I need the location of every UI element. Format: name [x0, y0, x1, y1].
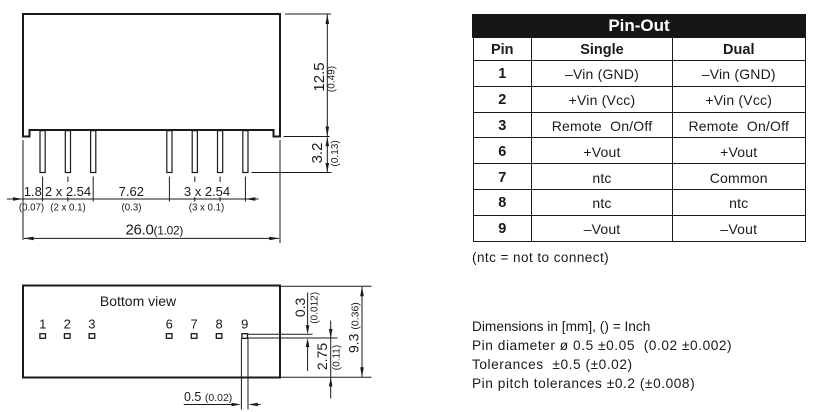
arrowhead down at 9.3 bottom [360, 367, 364, 377]
extension line: pin9 left edge down (0.5) [240, 339, 242, 410]
arrowhead down at pin9 lower line [329, 329, 333, 338]
extension tick: pin7 at dim line [194, 197, 196, 202]
bottom view: pin 2 square [64, 334, 70, 339]
extension line: pin3 center [92, 177, 94, 202]
svg-text:1.8: 1.8 [24, 184, 42, 199]
arrowhead up at 9.3 top [360, 286, 364, 296]
front view: pin 2 [65, 131, 70, 173]
extension line: body left edge [22, 140, 24, 240]
bottom view: pin 1 square [40, 334, 46, 339]
arrowhead left at 26.0 left end [24, 237, 34, 241]
dimension line 9.3 vertical [361, 287, 363, 377]
dimension 0.3: lower leader with up arrow [307, 342, 309, 372]
svg-text:3 x 2.54: 3 x 2.54 [184, 184, 230, 199]
arrowhead right at 26.0 right end [269, 237, 279, 241]
svg-text:2.75: 2.75 [314, 343, 330, 370]
svg-text:2 x 2.54: 2 x 2.54 [45, 184, 91, 199]
dimension line: pin pitch row [7, 198, 259, 200]
bottom view: pin 7 square [191, 334, 197, 339]
front view: package body outline [23, 14, 280, 137]
extension line: pin1 center [42, 177, 44, 202]
svg-text:1: 1 [39, 317, 46, 332]
svg-text:12.5: 12.5 [311, 62, 328, 91]
arrowhead left at 0.5 right ext [248, 403, 258, 407]
extension dash: pin2 center [67, 177, 69, 183]
bottom view: pin 6 square [166, 334, 172, 339]
dimensions text block [472, 317, 732, 394]
svg-text:3.2: 3.2 [309, 143, 326, 164]
extension dash: pin7 center [194, 177, 196, 183]
extension line: pin tips right [252, 172, 332, 174]
svg-text:(3 x 0.1): (3 x 0.1) [189, 203, 225, 214]
svg-text:7.62: 7.62 [119, 184, 144, 199]
arrowhead down at standoff line [326, 127, 330, 137]
front view: pin 7 [192, 131, 197, 173]
arrowhead right at body left ext [13, 197, 23, 201]
extension dash: pin8 center [219, 177, 221, 183]
dimension line 12.5 vertical [326, 15, 328, 137]
extension line: pin9 right edge down (0.5) [247, 339, 249, 410]
svg-text:9: 9 [241, 317, 248, 332]
dimension line: 26.0 overall [24, 237, 279, 239]
dimension 2.75: vertical line [330, 321, 332, 399]
extension line: pin9 top edge (0.3 upper) [248, 333, 313, 335]
svg-text:26.0(1.02): 26.0(1.02) [126, 222, 184, 239]
svg-text:9.3 (0.36): 9.3 (0.36) [346, 302, 362, 353]
note ntc [472, 250, 609, 265]
svg-text:(0.07): (0.07) [19, 203, 44, 214]
arrowhead up at body bottom line [329, 378, 333, 387]
extension line: body bottom right (9.3) [281, 376, 372, 378]
svg-text:(0.11): (0.11) [332, 345, 343, 370]
svg-text:(0.13): (0.13) [330, 140, 341, 166]
bottom view: package body rectangle [23, 286, 280, 378]
svg-text:(0.49): (0.49) [327, 66, 338, 92]
extension line: pin9 bottom edge (0.3 lower) [248, 337, 338, 339]
svg-text:(2 x 0.1): (2 x 0.1) [50, 203, 86, 214]
extension line: body top right (9.3) [281, 285, 372, 287]
arrowhead down at 3.2 bottom [326, 163, 330, 172]
extension line: body top right [285, 13, 331, 15]
arrowhead up at body top [326, 14, 330, 24]
extension line: body right edge [279, 140, 281, 243]
dimension 0.5: leader line under text [184, 404, 233, 406]
svg-text:0.3: 0.3 [292, 297, 308, 317]
extension tick: pin8 at dim line [219, 197, 221, 202]
extension line: pin6 center [168, 177, 170, 202]
svg-text:8: 8 [215, 317, 222, 332]
svg-text:Bottom view: Bottom view [100, 293, 177, 309]
svg-text:3: 3 [88, 317, 95, 332]
svg-text:(0.012): (0.012) [310, 292, 321, 324]
front view: pin 9 [243, 131, 248, 173]
arrowhead left at pin9 ext [245, 197, 255, 201]
arrowhead right at 0.5 left ext [232, 403, 242, 407]
front view: pin 1 [40, 131, 45, 173]
extension line: body bottom (standoff) right [284, 136, 330, 138]
svg-text:6: 6 [166, 317, 173, 332]
svg-text:(0.3): (0.3) [122, 203, 142, 214]
arrowhead up at 3.2 top [326, 137, 330, 146]
front view: pin 8 [218, 131, 223, 173]
front view: pin 3 [91, 131, 96, 173]
dimension 0.3: upper leader with down arrow [307, 293, 309, 331]
svg-text:0.5 (0.02): 0.5 (0.02) [184, 390, 232, 404]
front view: pin 6 [167, 131, 172, 173]
dimension 0.5: right shaft [256, 404, 261, 406]
extension tick: pin2 at dim line [67, 197, 69, 202]
dimension line 3.2 vertical [326, 137, 328, 172]
bottom view: pin 8 square [216, 334, 222, 339]
bottom view: pin 3 square [89, 334, 95, 339]
svg-text:2: 2 [64, 317, 71, 332]
bottom view: pin 9 square [242, 334, 248, 339]
svg-text:7: 7 [190, 317, 197, 332]
pin-out table [472, 14, 806, 242]
extension line: pin9 center [244, 177, 246, 202]
